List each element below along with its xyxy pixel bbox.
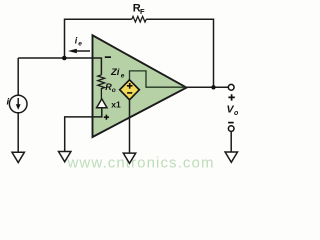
svg-text:o: o bbox=[234, 110, 239, 117]
resistor RF bbox=[132, 16, 147, 22]
svg-text:www.cntronics.com: www.cntronics.com bbox=[67, 155, 215, 172]
plus marking dependent source bbox=[127, 83, 133, 89]
ground G3 bbox=[123, 153, 135, 163]
svg-text:i: i bbox=[7, 96, 10, 107]
wire output bbox=[187, 86, 229, 88]
resistor Ro bbox=[98, 75, 105, 99]
terminal Vo+ bbox=[228, 84, 234, 90]
ground G1 bbox=[12, 152, 24, 162]
ground G4 bbox=[225, 152, 237, 162]
svg-text:F: F bbox=[140, 7, 145, 16]
svg-text:o: o bbox=[112, 87, 116, 94]
svg-text:Zi: Zi bbox=[110, 67, 120, 78]
dependent source E1 diamond bbox=[120, 80, 140, 100]
wire input node to op-amp inverting input bbox=[18, 58, 101, 75]
minus marking dependent source bbox=[127, 92, 132, 94]
svg-text:e: e bbox=[121, 73, 125, 80]
wire dependent source to output apex bbox=[130, 71, 187, 87]
ground G2 bbox=[59, 152, 71, 162]
wire feedback top loop bbox=[65, 19, 214, 87]
plus marking Vo bbox=[228, 94, 234, 100]
minus marking Vo bbox=[228, 122, 234, 124]
junction node dot bbox=[62, 56, 67, 61]
wire noninverting input to ground bbox=[65, 108, 102, 152]
buffer x1 bbox=[97, 99, 107, 108]
junction node output dot bbox=[211, 85, 215, 89]
op-amp U1 body bbox=[93, 35, 187, 137]
svg-text:x1: x1 bbox=[111, 99, 121, 109]
wire dependent source to ground bbox=[129, 100, 131, 153]
minus marking inverting input bbox=[105, 56, 111, 58]
plus marking noninverting input bbox=[104, 115, 109, 120]
svg-text:e: e bbox=[78, 41, 82, 48]
current source I bbox=[9, 95, 27, 113]
terminal Vo- bbox=[228, 126, 234, 132]
current source I wires bbox=[17, 58, 19, 152]
arrow ie current direction bbox=[76, 50, 91, 52]
wire terminal to ground bbox=[230, 131, 232, 152]
